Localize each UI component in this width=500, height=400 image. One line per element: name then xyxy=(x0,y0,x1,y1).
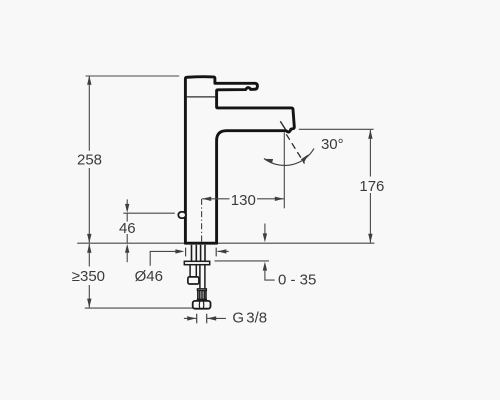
46 dimension line xyxy=(126,199,128,204)
258 top extension line xyxy=(86,75,180,77)
>=350 dimension line xyxy=(88,244,90,267)
mounting nut xyxy=(188,277,199,284)
130 centerline dash-dot xyxy=(201,199,203,243)
G3/8 right arrowhead xyxy=(207,316,216,320)
46 clip extension line xyxy=(123,212,175,214)
dia46 leader elbow xyxy=(150,251,176,265)
>=350 bottom arrowhead xyxy=(87,299,91,308)
svg-text:176: 176 xyxy=(359,178,384,195)
arc left arrowhead xyxy=(263,157,273,163)
svg-text:3/8: 3/8 xyxy=(246,310,267,327)
svg-text:Ø46: Ø46 xyxy=(135,268,163,285)
176 extension line xyxy=(299,128,374,130)
threaded stud xyxy=(189,265,191,277)
0-35 lower arrowhead xyxy=(263,262,267,271)
swing dashed line xyxy=(286,134,304,163)
hex nut G3/8 xyxy=(193,301,211,309)
G3/8 left tick xyxy=(196,314,198,324)
0-35 leader xyxy=(265,271,275,281)
side clip xyxy=(178,212,186,218)
deck line left segment xyxy=(77,242,184,244)
mounting flange xyxy=(184,261,209,264)
svg-text:130: 130 xyxy=(231,192,256,209)
hose collar lower xyxy=(197,299,206,301)
176 top arrowhead xyxy=(368,130,372,139)
arc right arrowhead xyxy=(301,153,310,163)
258 dimension line xyxy=(88,76,90,151)
46 lower arrowhead xyxy=(125,244,129,253)
hose ribbed thread xyxy=(198,291,206,300)
G3/8 right arrow line xyxy=(207,317,226,319)
aerator drop line xyxy=(283,133,285,209)
dia46 right tail xyxy=(217,250,228,252)
130 dimension line xyxy=(202,198,229,200)
0-35 flange extension line xyxy=(215,260,270,262)
0-35 upper arrow line xyxy=(264,224,266,235)
176 bottom arrowhead xyxy=(368,234,372,243)
supply hose xyxy=(199,265,201,289)
130 right arrowhead xyxy=(275,197,284,201)
floor line xyxy=(85,307,193,309)
hose collar upper xyxy=(197,289,206,291)
176 dimension line xyxy=(369,130,371,177)
pipes between body and flange xyxy=(191,245,193,261)
svg-text:30°: 30° xyxy=(321,136,344,153)
G3/8 left arrowhead xyxy=(187,316,196,320)
deck line right segment xyxy=(217,242,375,244)
svg-text:0 - 35: 0 - 35 xyxy=(278,271,316,288)
258 top arrowhead xyxy=(87,76,91,85)
swing arc xyxy=(264,149,314,166)
130 left arrowhead xyxy=(202,197,211,201)
258 bottom arrowhead xyxy=(87,234,91,243)
svg-text:46: 46 xyxy=(119,220,136,237)
0-35 upper arrowhead xyxy=(263,233,267,242)
faucet outline xyxy=(185,77,294,243)
dia46 left arrowhead xyxy=(175,249,184,253)
svg-text:258: 258 xyxy=(77,152,102,169)
aerator tick xyxy=(280,121,285,130)
svg-text:≥350: ≥350 xyxy=(72,268,105,285)
G3/8 right tick xyxy=(206,314,208,324)
svg-text:G: G xyxy=(232,310,244,327)
dia46 right arrowhead xyxy=(217,249,226,253)
cap joint line xyxy=(186,96,215,98)
46 upper arrowhead xyxy=(125,204,129,213)
>=350 top arrowhead xyxy=(87,244,91,253)
dia46 right tick xyxy=(215,248,217,257)
dia46 left tick xyxy=(185,248,187,257)
G3/8 left arrow line xyxy=(184,317,197,319)
